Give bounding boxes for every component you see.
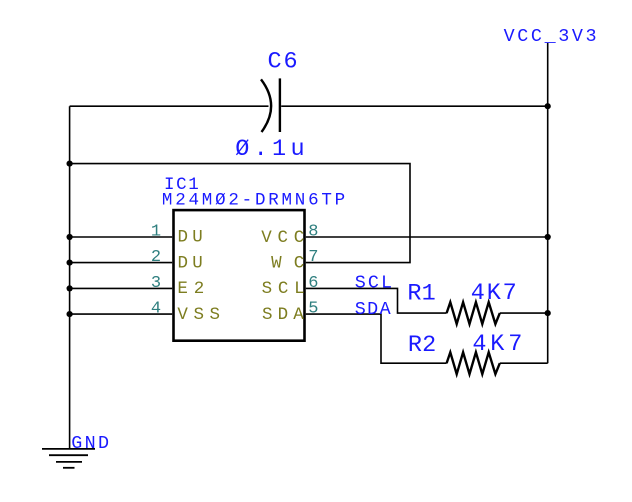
ground <box>42 449 95 468</box>
svg-text:4K7: 4K7 <box>472 331 522 358</box>
svg-text:1: 1 <box>151 222 161 241</box>
svg-text:R2: R2 <box>408 332 436 359</box>
resistor R2 <box>447 352 500 374</box>
capacitor C6 <box>261 78 280 132</box>
resistor R1 <box>447 302 500 324</box>
svg-text:SDA: SDA <box>355 299 392 320</box>
wire: SCL net from pin 6 down to R1 <box>306 288 447 313</box>
svg-text:7: 7 <box>308 248 318 267</box>
wire: pin 1 stub <box>70 236 173 238</box>
svg-text:VCC: VCC <box>261 228 304 248</box>
wire: top horizontal left of C6 <box>70 105 269 107</box>
svg-text:SCL: SCL <box>262 279 305 299</box>
wire: R2 right lead to rail <box>500 362 548 364</box>
svg-text:GND: GND <box>71 433 109 454</box>
svg-text:3: 3 <box>151 274 161 293</box>
node: junction dots VCC rail <box>545 103 551 316</box>
svg-text:SCL: SCL <box>355 272 392 293</box>
wire: VCC_3V3 vertical rail <box>547 43 549 364</box>
node: junction dots left rail <box>67 161 73 318</box>
wire: R1 right lead to rail <box>500 312 548 314</box>
wire: pin 8 (VCC) stub to rail <box>306 236 548 238</box>
svg-text:VSS: VSS <box>177 305 220 325</box>
wire: pin 2 stub <box>70 262 173 264</box>
wire: pin 4 stub <box>70 313 173 315</box>
svg-text:4: 4 <box>151 300 161 319</box>
svg-text:8: 8 <box>308 222 318 241</box>
wire: SDA net from pin 5 down to R2 <box>306 314 447 363</box>
wire: hook from left rail to pin 7 (WC) <box>70 164 410 263</box>
IC IC1 body <box>174 210 305 341</box>
svg-text:2: 2 <box>151 248 161 267</box>
wire: pin 3 stub <box>70 287 173 289</box>
svg-text:SDA: SDA <box>262 305 304 325</box>
wire: left vertical rail <box>69 106 71 449</box>
svg-text:R1: R1 <box>407 281 435 308</box>
svg-text:6: 6 <box>308 274 318 293</box>
svg-text:5: 5 <box>308 300 318 319</box>
svg-text:4K7: 4K7 <box>471 280 517 307</box>
wire: top horizontal right of C6 to VCC rail <box>281 105 548 107</box>
svg-text:VCC_3V3: VCC_3V3 <box>504 26 597 47</box>
svg-text:C6: C6 <box>268 49 298 76</box>
